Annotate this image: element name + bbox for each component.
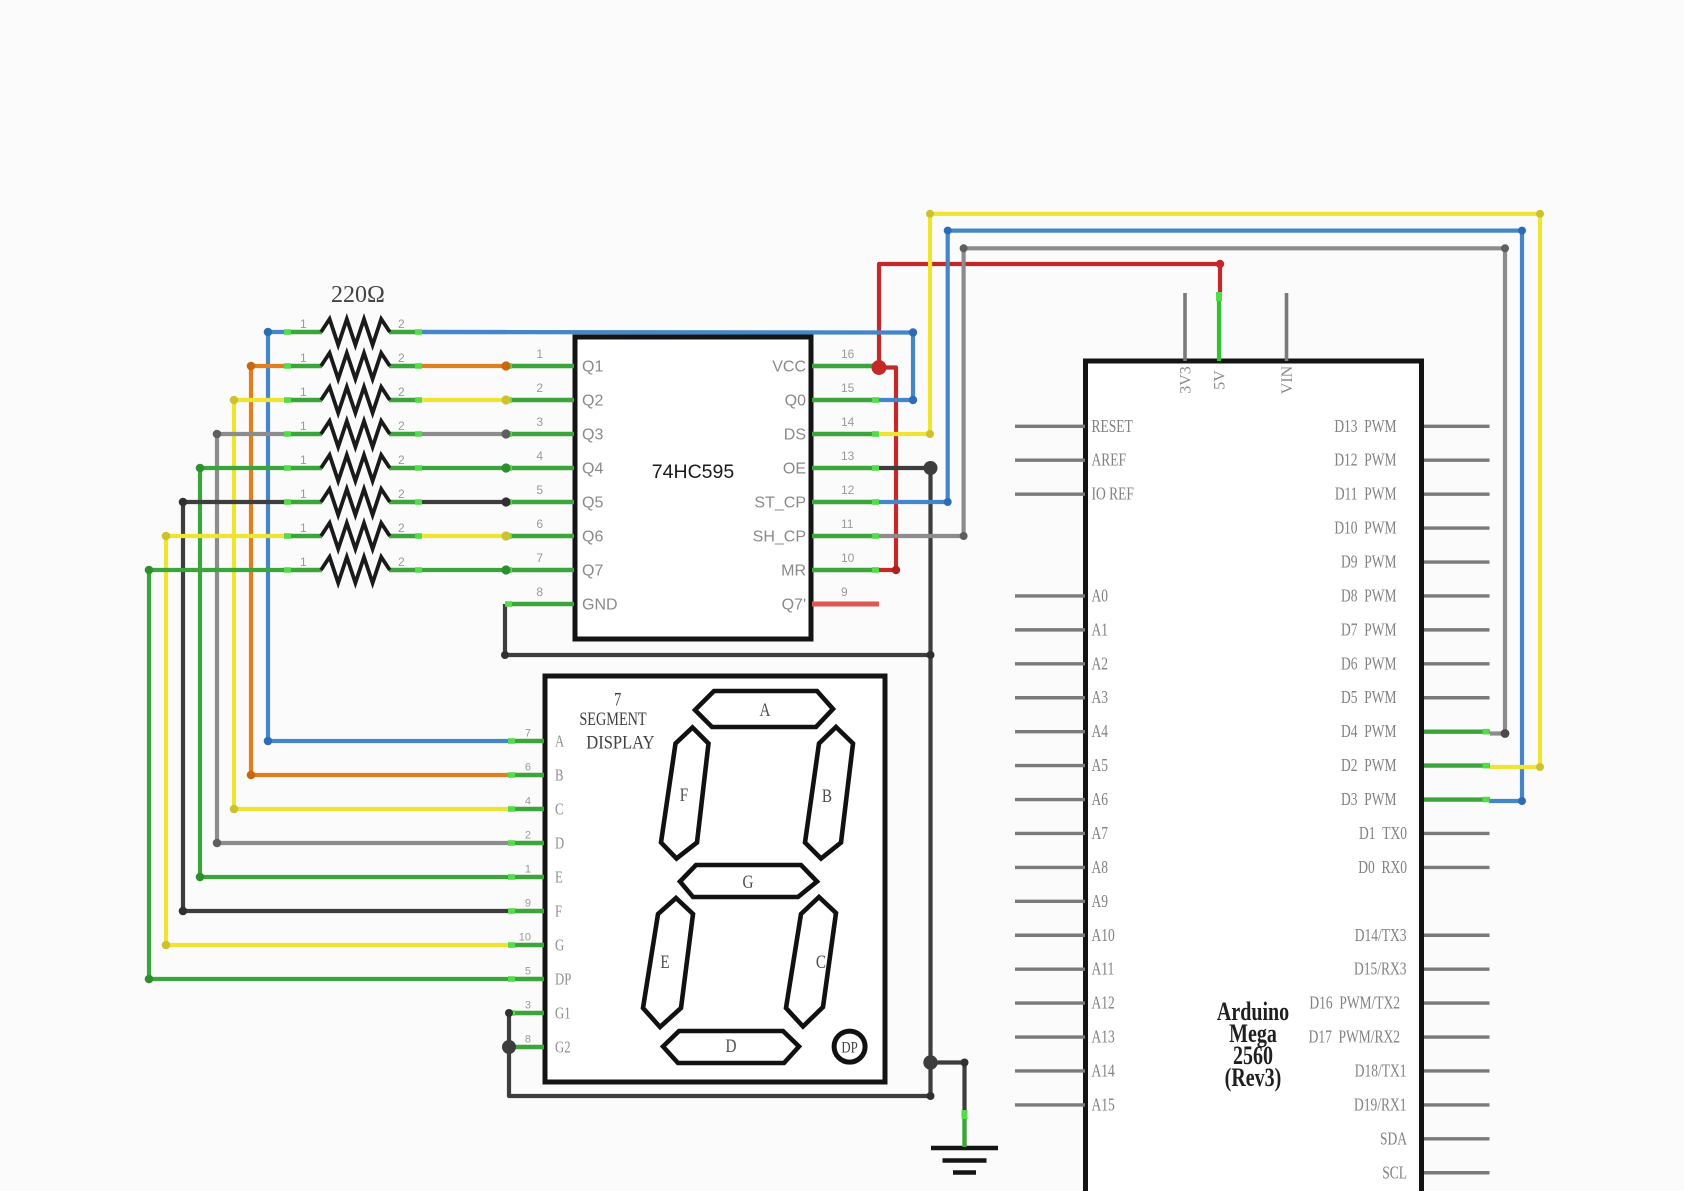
svg-text:OE: OE: [783, 461, 806, 478]
svg-text:220Ω: 220Ω: [331, 282, 385, 308]
svg-text:D: D: [555, 835, 564, 853]
svg-text:Q0: Q0: [785, 393, 806, 410]
svg-text:D19/RX1: D19/RX1: [1354, 1096, 1406, 1115]
svg-text:1: 1: [300, 351, 307, 365]
svg-text:Q5: Q5: [582, 495, 603, 512]
svg-text:Q2: Q2: [582, 393, 603, 410]
svg-text:E: E: [660, 951, 669, 972]
svg-text:6: 6: [525, 762, 531, 774]
svg-text:1: 1: [300, 555, 307, 569]
svg-text:Q7': Q7': [782, 597, 806, 614]
svg-text:D: D: [726, 1035, 737, 1056]
svg-text:13: 13: [841, 449, 855, 463]
svg-text:7: 7: [536, 551, 543, 565]
svg-text:D9 PWM: D9 PWM: [1341, 553, 1396, 572]
svg-text:A0: A0: [1092, 587, 1109, 606]
svg-text:5: 5: [525, 966, 531, 978]
svg-text:A: A: [555, 733, 564, 751]
svg-text:B: B: [555, 767, 563, 785]
svg-text:10: 10: [841, 551, 855, 565]
svg-text:A6: A6: [1092, 790, 1109, 809]
svg-text:5V: 5V: [1212, 370, 1229, 390]
svg-text:D0 RX0: D0 RX0: [1358, 858, 1407, 877]
svg-text:A15: A15: [1092, 1096, 1115, 1115]
svg-text:14: 14: [841, 415, 855, 429]
svg-text:1: 1: [300, 521, 307, 535]
svg-text:D2 PWM: D2 PWM: [1341, 756, 1396, 775]
svg-text:8: 8: [525, 1034, 531, 1046]
svg-text:1: 1: [300, 419, 307, 433]
svg-text:Q7: Q7: [582, 563, 603, 580]
svg-text:F: F: [555, 903, 562, 921]
svg-text:A11: A11: [1092, 960, 1115, 979]
svg-text:SEGMENT: SEGMENT: [579, 708, 646, 729]
svg-text:D13 PWM: D13 PWM: [1334, 417, 1396, 436]
svg-text:B: B: [822, 785, 832, 806]
svg-text:1: 1: [300, 487, 307, 501]
svg-text:DISPLAY: DISPLAY: [586, 732, 654, 753]
svg-text:D4 PWM: D4 PWM: [1341, 722, 1396, 741]
svg-text:F: F: [680, 784, 688, 805]
svg-text:1: 1: [300, 453, 307, 467]
svg-text:D10 PWM: D10 PWM: [1334, 519, 1396, 538]
svg-text:D3 PWM: D3 PWM: [1341, 790, 1396, 809]
svg-text:SH_CP: SH_CP: [753, 529, 806, 546]
svg-text:A1: A1: [1092, 621, 1108, 640]
svg-text:3: 3: [536, 415, 543, 429]
svg-text:D11 PWM: D11 PWM: [1335, 485, 1397, 504]
svg-text:SCL: SCL: [1382, 1164, 1407, 1183]
svg-text:G: G: [743, 871, 754, 892]
svg-text:DP: DP: [841, 1039, 857, 1057]
svg-text:A: A: [760, 699, 771, 720]
svg-text:Q1: Q1: [582, 359, 603, 376]
svg-text:G: G: [555, 937, 564, 955]
svg-text:D16 PWM/TX2: D16 PWM/TX2: [1309, 994, 1400, 1013]
svg-text:A2: A2: [1092, 655, 1109, 674]
svg-text:2: 2: [398, 351, 405, 365]
svg-text:A14: A14: [1092, 1062, 1115, 1081]
svg-text:5: 5: [536, 483, 543, 497]
svg-text:9: 9: [841, 585, 848, 599]
svg-text:1: 1: [300, 317, 307, 331]
svg-text:2: 2: [525, 830, 531, 842]
svg-text:VCC: VCC: [772, 359, 806, 376]
svg-text:RESET: RESET: [1092, 417, 1133, 436]
svg-text:DS: DS: [784, 427, 806, 444]
svg-text:E: E: [555, 869, 563, 887]
svg-text:D12 PWM: D12 PWM: [1334, 451, 1396, 470]
svg-text:2: 2: [398, 487, 405, 501]
svg-text:A13: A13: [1092, 1028, 1115, 1047]
svg-text:A7: A7: [1092, 824, 1109, 843]
svg-text:DP: DP: [555, 971, 571, 989]
svg-text:G2: G2: [555, 1039, 571, 1057]
svg-text:6: 6: [536, 517, 543, 531]
svg-text:1: 1: [300, 385, 307, 399]
svg-text:11: 11: [841, 517, 854, 531]
svg-text:7: 7: [614, 689, 621, 710]
svg-text:D1 TX0: D1 TX0: [1359, 824, 1407, 843]
svg-text:A8: A8: [1092, 858, 1109, 877]
svg-text:D17 PWM/RX2: D17 PWM/RX2: [1309, 1028, 1400, 1047]
svg-text:9: 9: [525, 898, 531, 910]
svg-text:1: 1: [525, 864, 531, 876]
svg-text:A3: A3: [1092, 689, 1109, 708]
svg-text:A12: A12: [1092, 994, 1115, 1013]
svg-text:3V3: 3V3: [1178, 366, 1195, 394]
svg-text:C: C: [816, 951, 826, 972]
svg-text:A5: A5: [1092, 756, 1109, 775]
svg-text:GND: GND: [582, 597, 618, 614]
svg-text:Q4: Q4: [582, 461, 603, 478]
svg-text:2: 2: [398, 453, 405, 467]
svg-text:AREF: AREF: [1092, 451, 1127, 470]
svg-text:2: 2: [398, 317, 405, 331]
svg-text:2: 2: [398, 555, 405, 569]
svg-text:12: 12: [841, 483, 855, 497]
svg-text:2: 2: [398, 385, 405, 399]
svg-text:74HC595: 74HC595: [652, 461, 735, 483]
svg-text:SDA: SDA: [1380, 1130, 1407, 1149]
svg-text:MR: MR: [781, 563, 806, 580]
svg-text:16: 16: [841, 347, 855, 361]
svg-text:A4: A4: [1092, 722, 1109, 741]
svg-text:A10: A10: [1092, 926, 1115, 945]
svg-text:D6 PWM: D6 PWM: [1341, 655, 1396, 674]
svg-text:4: 4: [525, 796, 531, 808]
svg-text:Q3: Q3: [582, 427, 603, 444]
svg-text:3: 3: [525, 1000, 531, 1012]
svg-text:7: 7: [525, 728, 531, 740]
svg-text:10: 10: [519, 932, 531, 944]
svg-text:ST_CP: ST_CP: [754, 495, 806, 512]
svg-text:D5 PWM: D5 PWM: [1341, 689, 1396, 708]
svg-text:2: 2: [398, 521, 405, 535]
svg-text:D18/TX1: D18/TX1: [1355, 1062, 1407, 1081]
svg-text:(Rev3): (Rev3): [1225, 1064, 1282, 1093]
svg-text:D7 PWM: D7 PWM: [1341, 621, 1396, 640]
svg-text:C: C: [555, 801, 563, 819]
svg-text:8: 8: [536, 585, 543, 599]
svg-text:IO REF: IO REF: [1092, 485, 1134, 504]
svg-text:VIN: VIN: [1279, 365, 1296, 394]
svg-text:A9: A9: [1092, 892, 1109, 911]
svg-text:15: 15: [841, 381, 855, 395]
svg-text:Q6: Q6: [582, 529, 603, 546]
svg-text:4: 4: [536, 449, 543, 463]
svg-text:D15/RX3: D15/RX3: [1354, 960, 1406, 979]
svg-text:G1: G1: [555, 1005, 571, 1023]
svg-text:2: 2: [536, 381, 543, 395]
svg-text:D8 PWM: D8 PWM: [1341, 587, 1396, 606]
svg-text:1: 1: [536, 347, 543, 361]
svg-text:D14/TX3: D14/TX3: [1355, 926, 1407, 945]
svg-text:2: 2: [398, 419, 405, 433]
